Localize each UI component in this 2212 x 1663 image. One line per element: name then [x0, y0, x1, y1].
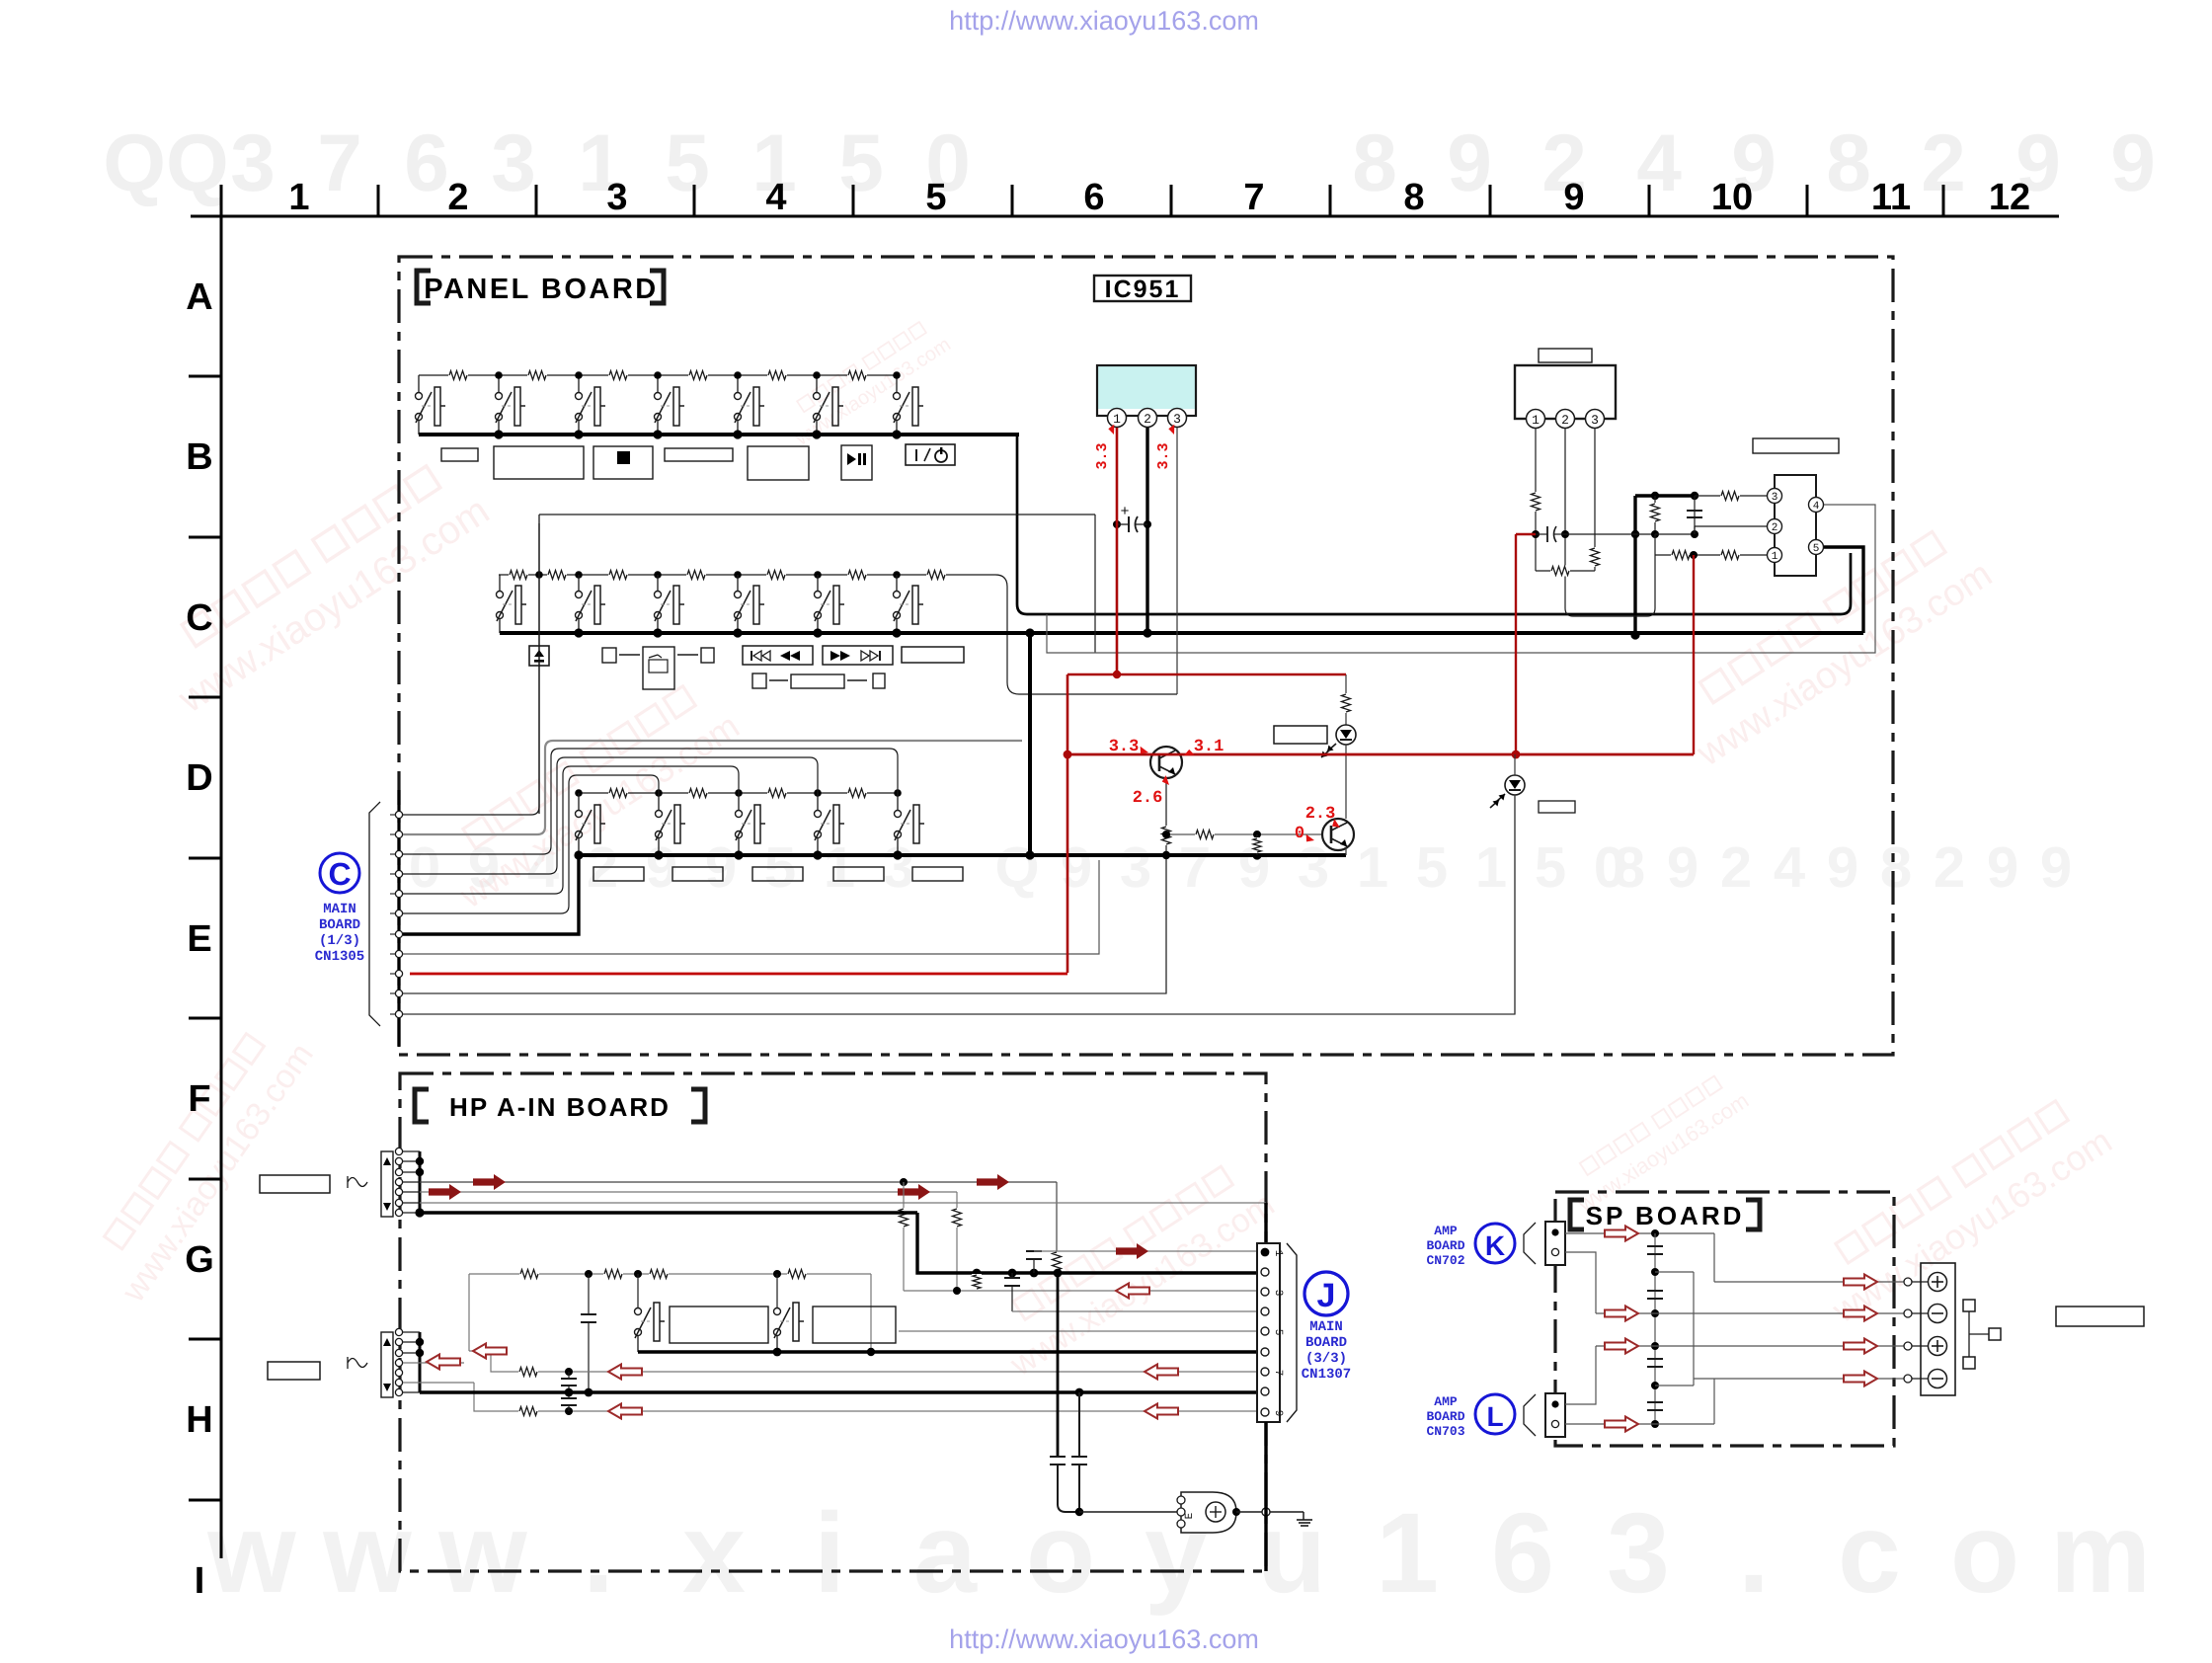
svg-text:3: 3 [1272, 1290, 1284, 1297]
svg-text:4: 4 [1774, 835, 1805, 900]
svg-text:11: 11 [1871, 177, 1911, 218]
svg-text:2.6: 2.6 [1133, 789, 1163, 808]
svg-text:2.3: 2.3 [1305, 805, 1336, 824]
svg-text:K: K [1485, 1230, 1505, 1261]
svg-text:1: 1 [1772, 551, 1778, 563]
svg-text:3.3: 3.3 [1155, 442, 1172, 469]
svg-text:1: 1 [1475, 835, 1507, 900]
svg-text:C: C [328, 856, 351, 892]
svg-text:3: 3 [1772, 492, 1778, 504]
svg-text:AMP: AMP [1434, 1394, 1458, 1409]
svg-text:0: 0 [409, 835, 440, 900]
svg-text:http://www.xiaoyu163.com: http://www.xiaoyu163.com [949, 1624, 1259, 1654]
svg-text:H: H [186, 1399, 212, 1441]
svg-text:.: . [1738, 1490, 1770, 1617]
svg-text:1: 1 [1376, 1490, 1439, 1617]
svg-text:a: a [913, 1490, 978, 1617]
svg-text:1: 1 [1357, 835, 1388, 900]
svg-text:9: 9 [1272, 1410, 1284, 1417]
svg-text:AMP: AMP [1434, 1224, 1458, 1238]
svg-text:BOARD: BOARD [1426, 1409, 1464, 1424]
svg-text:8: 8 [1826, 119, 1871, 208]
svg-text:D: D [186, 757, 212, 799]
svg-text:G: G [185, 1239, 214, 1281]
svg-text:A: A [186, 277, 212, 318]
svg-text:7: 7 [317, 119, 362, 208]
svg-text:7: 7 [1179, 835, 1211, 900]
svg-text:3: 3 [1591, 413, 1599, 428]
svg-text:(1/3): (1/3) [319, 933, 360, 949]
svg-text:2: 2 [1144, 412, 1151, 427]
svg-text:BOARD: BOARD [319, 917, 360, 933]
svg-text:6: 6 [1083, 177, 1104, 218]
svg-text:BOARD: BOARD [1305, 1335, 1347, 1351]
svg-text:12: 12 [1989, 177, 2030, 218]
svg-text:3.3: 3.3 [1109, 738, 1140, 756]
svg-text:4: 4 [1813, 501, 1820, 513]
svg-text:5: 5 [1535, 835, 1566, 900]
svg-text:2: 2 [1720, 835, 1752, 900]
svg-text:8: 8 [1614, 835, 1645, 900]
svg-text:o: o [1026, 1490, 1095, 1617]
svg-text:9: 9 [1987, 835, 2018, 900]
svg-text:MAIN: MAIN [323, 902, 356, 917]
svg-text:B: B [186, 436, 212, 478]
svg-text:3.1: 3.1 [1194, 738, 1224, 756]
svg-text:IC951: IC951 [1105, 276, 1181, 303]
svg-text:5: 5 [665, 119, 710, 208]
svg-text:2: 2 [1934, 835, 1965, 900]
svg-text:L: L [1486, 1401, 1503, 1432]
svg-text:CN703: CN703 [1426, 1424, 1464, 1439]
svg-text:.: . [583, 1490, 614, 1617]
svg-text:PANEL BOARD: PANEL BOARD [424, 274, 659, 305]
svg-text:i: i [814, 1490, 845, 1617]
svg-text:6: 6 [404, 119, 449, 208]
svg-text:E: E [1184, 1512, 1196, 1519]
svg-text:4: 4 [1636, 119, 1682, 208]
svg-text:3: 3 [1120, 835, 1151, 900]
svg-text:5: 5 [925, 177, 946, 218]
svg-text:F: F [188, 1078, 210, 1120]
svg-text:3: 3 [1607, 1490, 1670, 1617]
svg-text:7: 7 [1272, 1370, 1284, 1377]
svg-text:SP BOARD: SP BOARD [1586, 1201, 1745, 1230]
svg-text:3: 3 [230, 119, 276, 208]
svg-text:o: o [1950, 1490, 2019, 1617]
svg-text:4: 4 [765, 177, 786, 218]
svg-text:w: w [437, 1490, 527, 1617]
svg-text:2: 2 [447, 177, 468, 218]
svg-text:5: 5 [1416, 835, 1448, 900]
svg-text:9: 9 [1563, 177, 1584, 218]
svg-text:3.3: 3.3 [1094, 442, 1111, 469]
svg-text:0: 0 [1295, 825, 1304, 843]
svg-text:9: 9 [1061, 835, 1092, 900]
svg-text:2: 2 [1772, 522, 1778, 534]
svg-text:1: 1 [1532, 413, 1540, 428]
svg-text:3: 3 [1298, 835, 1329, 900]
svg-text:3: 3 [883, 835, 914, 900]
svg-text:Q: Q [994, 835, 1039, 900]
svg-text:QQ: QQ [103, 119, 229, 208]
svg-text:9: 9 [1827, 835, 1858, 900]
svg-text:CN1307: CN1307 [1302, 1367, 1351, 1383]
svg-text:5: 5 [838, 119, 884, 208]
svg-text:CN702: CN702 [1426, 1253, 1464, 1268]
svg-text:BOARD: BOARD [1426, 1238, 1464, 1253]
svg-text:7: 7 [1243, 177, 1264, 218]
svg-text:5: 5 [1813, 543, 1820, 555]
svg-text:C: C [186, 597, 212, 639]
svg-text:http://www.xiaoyu163.com: http://www.xiaoyu163.com [949, 6, 1259, 36]
svg-text:I: I [195, 1560, 205, 1602]
svg-text:9: 9 [2110, 119, 2156, 208]
svg-text:10: 10 [1711, 177, 1753, 218]
svg-text:8: 8 [1352, 119, 1397, 208]
svg-text:E: E [187, 918, 211, 960]
svg-text:8: 8 [1880, 835, 1912, 900]
svg-text:HP A-IN BOARD: HP A-IN BOARD [449, 1092, 671, 1122]
svg-text:2: 2 [1561, 413, 1569, 428]
svg-text:3: 3 [606, 177, 627, 218]
svg-text:8: 8 [1403, 177, 1424, 218]
svg-text:(3/3): (3/3) [1305, 1351, 1347, 1367]
svg-text:c: c [1838, 1490, 1901, 1617]
svg-text:5: 5 [1272, 1329, 1284, 1336]
svg-text:MAIN: MAIN [1309, 1319, 1343, 1335]
svg-text:6: 6 [1491, 1490, 1554, 1617]
svg-text:3: 3 [491, 119, 536, 208]
svg-text:+: + [1121, 503, 1130, 519]
svg-text:CN1305: CN1305 [315, 949, 364, 965]
svg-text:m: m [2050, 1490, 2151, 1617]
svg-text:1: 1 [1272, 1250, 1284, 1257]
svg-text:J: J [1317, 1277, 1336, 1314]
svg-text:x: x [682, 1490, 746, 1617]
svg-text:9: 9 [1667, 835, 1698, 900]
svg-text:9: 9 [2040, 835, 2072, 900]
svg-text:1: 1 [288, 177, 309, 218]
svg-text:9: 9 [1447, 119, 1492, 208]
svg-text:y: y [1145, 1490, 1208, 1617]
